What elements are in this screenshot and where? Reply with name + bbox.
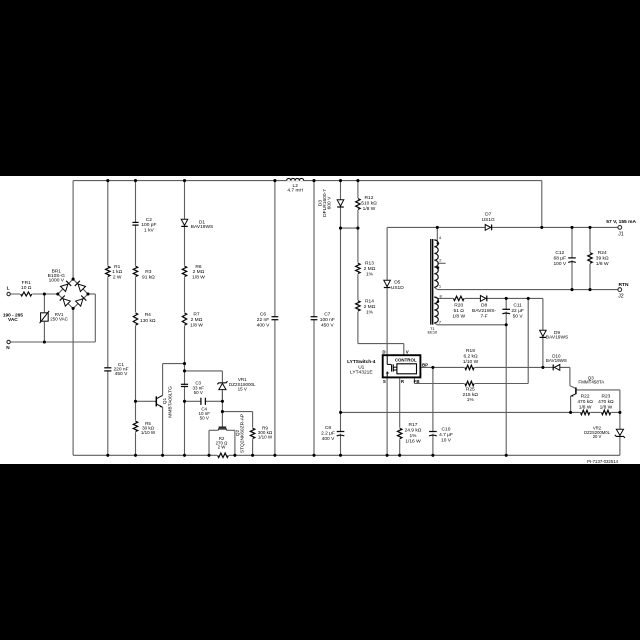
svg-text:C2: C2 bbox=[146, 217, 152, 223]
svg-text:2 MΩ: 2 MΩ bbox=[364, 304, 376, 310]
svg-text:PI-7137-032514: PI-7137-032514 bbox=[587, 459, 618, 464]
svg-text:D7: D7 bbox=[485, 211, 491, 217]
svg-text:1%: 1% bbox=[366, 309, 374, 315]
svg-text:50 V: 50 V bbox=[194, 390, 203, 395]
svg-text:1/8 W: 1/8 W bbox=[579, 404, 592, 410]
svg-text:C6: C6 bbox=[260, 312, 266, 318]
svg-text:2 W: 2 W bbox=[113, 274, 122, 280]
svg-text:100 V: 100 V bbox=[553, 261, 566, 267]
svg-text:100 pF: 100 pF bbox=[141, 222, 156, 228]
svg-text:C8: C8 bbox=[325, 425, 331, 431]
svg-text:22 μF: 22 μF bbox=[511, 308, 524, 314]
svg-text:EE10: EE10 bbox=[428, 329, 439, 334]
svg-text:BAV19WS: BAV19WS bbox=[546, 358, 567, 363]
svg-text:1/8 W: 1/8 W bbox=[363, 206, 376, 212]
svg-text:Q1: Q1 bbox=[162, 397, 168, 404]
svg-text:LYT4321E: LYT4321E bbox=[350, 370, 373, 376]
svg-text:R19: R19 bbox=[466, 348, 475, 354]
svg-text:50 V: 50 V bbox=[513, 313, 524, 319]
svg-text:91 kΩ: 91 kΩ bbox=[142, 275, 155, 281]
svg-text:4.7 mH: 4.7 mH bbox=[287, 188, 303, 194]
svg-text:R3: R3 bbox=[145, 269, 151, 275]
svg-text:1/8 W: 1/8 W bbox=[600, 404, 613, 410]
svg-text:C10: C10 bbox=[442, 426, 451, 432]
svg-text:R6: R6 bbox=[195, 264, 201, 270]
svg-text:MMBTA06LTG: MMBTA06LTG bbox=[168, 386, 174, 418]
svg-text:R25: R25 bbox=[466, 387, 475, 393]
svg-text:2.2 μF: 2.2 μF bbox=[321, 430, 335, 436]
svg-text:C12: C12 bbox=[555, 250, 564, 256]
svg-text:J2: J2 bbox=[618, 294, 624, 300]
svg-text:1/8 W: 1/8 W bbox=[452, 313, 465, 319]
svg-text:R1: R1 bbox=[114, 264, 120, 270]
svg-text:24.9 kΩ: 24.9 kΩ bbox=[405, 428, 422, 434]
svg-text:V: V bbox=[406, 349, 409, 354]
svg-text:BAV21WS-: BAV21WS- bbox=[472, 308, 497, 314]
svg-text:D: D bbox=[382, 349, 385, 354]
svg-text:1/8 W: 1/8 W bbox=[192, 274, 205, 280]
svg-text:400 V: 400 V bbox=[257, 323, 270, 329]
svg-text:VAC: VAC bbox=[8, 317, 18, 323]
svg-text:57 V, 155 mA: 57 V, 155 mA bbox=[606, 219, 636, 225]
svg-text:1%: 1% bbox=[467, 397, 475, 403]
svg-text:R20: R20 bbox=[454, 302, 463, 308]
svg-text:1 kΩ: 1 kΩ bbox=[112, 269, 122, 275]
svg-text:1/16 W: 1/16 W bbox=[405, 439, 421, 445]
svg-text:2 W: 2 W bbox=[218, 445, 227, 450]
svg-text:470 kΩ: 470 kΩ bbox=[577, 399, 593, 405]
svg-text:2 MΩ: 2 MΩ bbox=[364, 266, 376, 272]
svg-text:R14: R14 bbox=[365, 298, 374, 304]
svg-text:1/10 W: 1/10 W bbox=[258, 434, 273, 439]
svg-text:15 V: 15 V bbox=[238, 386, 247, 391]
svg-text:1000 V: 1000 V bbox=[49, 278, 65, 284]
svg-text:6.2 kΩ: 6.2 kΩ bbox=[463, 353, 478, 359]
svg-text:510 kΩ: 510 kΩ bbox=[361, 201, 377, 207]
svg-text:1/10 W: 1/10 W bbox=[463, 359, 479, 365]
svg-text:1%: 1% bbox=[366, 272, 374, 278]
svg-text:FB: FB bbox=[414, 379, 420, 384]
svg-text:1/8 W: 1/8 W bbox=[596, 261, 609, 267]
svg-text:215 kΩ: 215 kΩ bbox=[463, 392, 479, 398]
svg-text:1 kV: 1 kV bbox=[144, 228, 154, 234]
svg-text:D8: D8 bbox=[481, 302, 487, 308]
svg-text:450 V: 450 V bbox=[321, 323, 334, 329]
svg-text:1/10 W: 1/10 W bbox=[141, 430, 156, 435]
svg-text:R13: R13 bbox=[365, 261, 374, 267]
svg-text:470 kΩ: 470 kΩ bbox=[598, 399, 614, 405]
svg-text:R4: R4 bbox=[145, 312, 151, 318]
svg-text:BAV19WS: BAV19WS bbox=[191, 224, 214, 230]
svg-text:R23: R23 bbox=[601, 393, 610, 399]
svg-text:R24: R24 bbox=[598, 250, 607, 256]
svg-text:7-F: 7-F bbox=[480, 313, 487, 319]
svg-text:250 VAC: 250 VAC bbox=[50, 317, 68, 322]
svg-text:68 μF: 68 μF bbox=[554, 255, 567, 261]
svg-text:R7: R7 bbox=[193, 312, 199, 318]
svg-text:39 kΩ: 39 kΩ bbox=[596, 255, 609, 261]
svg-text:130 kΩ: 130 kΩ bbox=[140, 318, 156, 324]
svg-text:STQ2NK60ZR-AP: STQ2NK60ZR-AP bbox=[240, 414, 246, 453]
svg-text:US1D: US1D bbox=[391, 285, 404, 291]
svg-text:2 MΩ: 2 MΩ bbox=[191, 317, 203, 323]
svg-text:FMMT458TA: FMMT458TA bbox=[578, 380, 604, 385]
svg-text:BAV19WS: BAV19WS bbox=[546, 335, 569, 341]
svg-text:R12: R12 bbox=[365, 195, 374, 201]
svg-text:C7: C7 bbox=[324, 311, 330, 317]
svg-text:S: S bbox=[383, 379, 386, 384]
svg-text:D5: D5 bbox=[394, 279, 400, 285]
svg-text:CONTROL: CONTROL bbox=[395, 358, 417, 363]
svg-text:1/8 W: 1/8 W bbox=[190, 323, 203, 329]
svg-text:U1: U1 bbox=[358, 364, 364, 370]
svg-text:J1: J1 bbox=[618, 232, 624, 238]
svg-text:LYTSwitch-4: LYTSwitch-4 bbox=[347, 359, 376, 365]
svg-text:22 nF: 22 nF bbox=[257, 317, 269, 323]
svg-text:51 Ω: 51 Ω bbox=[454, 308, 465, 314]
svg-text:10 V: 10 V bbox=[441, 437, 452, 443]
svg-text:2 MΩ: 2 MΩ bbox=[193, 269, 205, 275]
svg-text:400 V: 400 V bbox=[322, 436, 335, 442]
svg-text:C11: C11 bbox=[513, 302, 522, 308]
svg-text:RTN: RTN bbox=[618, 282, 629, 288]
svg-text:50 V: 50 V bbox=[200, 416, 209, 421]
svg-text:4.7 μF: 4.7 μF bbox=[439, 432, 453, 438]
svg-text:20 V: 20 V bbox=[593, 434, 602, 439]
svg-text:BP: BP bbox=[422, 362, 428, 367]
svg-text:R22: R22 bbox=[581, 393, 590, 399]
svg-text:10 Ω: 10 Ω bbox=[21, 285, 32, 291]
svg-text:600 V: 600 V bbox=[327, 196, 333, 209]
svg-text:US1G: US1G bbox=[482, 217, 495, 223]
svg-text:R17: R17 bbox=[409, 422, 418, 428]
svg-text:100 nF: 100 nF bbox=[320, 317, 335, 323]
svg-text:1%: 1% bbox=[409, 433, 417, 439]
svg-text:L: L bbox=[7, 286, 10, 291]
svg-text:450 V: 450 V bbox=[115, 371, 128, 377]
